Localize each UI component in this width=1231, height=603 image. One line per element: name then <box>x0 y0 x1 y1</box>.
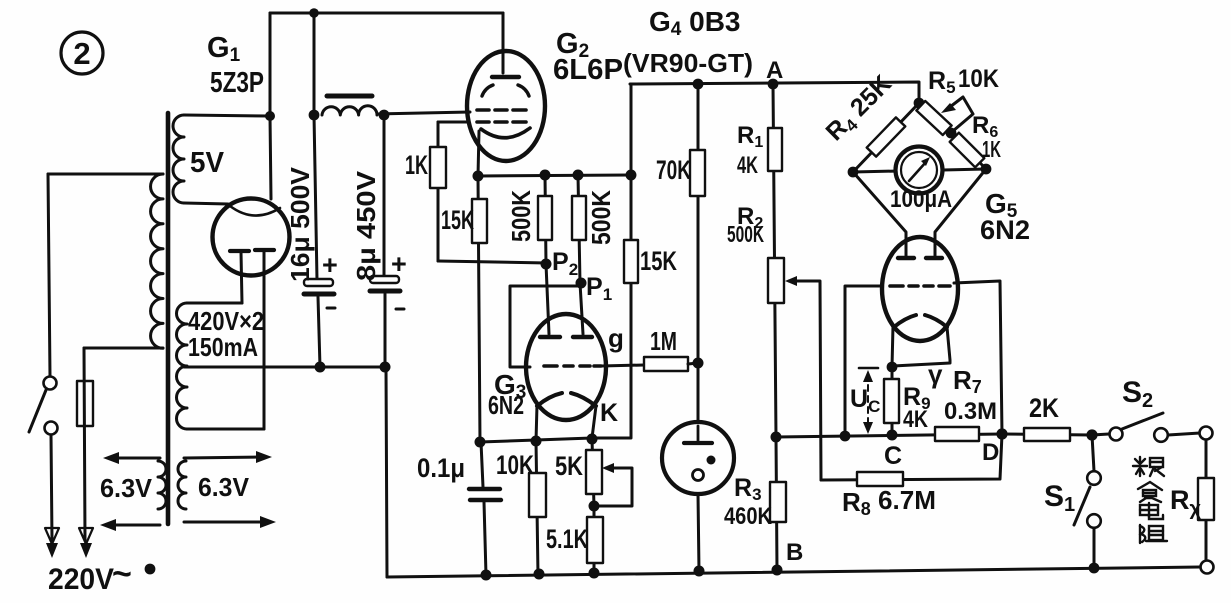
wire 6.3V right bottom lead <box>184 521 264 524</box>
svg-text:6.3V: 6.3V <box>198 472 250 502</box>
wire bridge right lower arm <box>935 169 986 258</box>
svg-text:10K: 10K <box>958 65 999 93</box>
node P2 <box>541 259 552 270</box>
wire bridge horizontal <box>853 169 986 172</box>
node junction R5 R6 <box>946 128 957 139</box>
transformer HT winding 420Vx2 <box>177 303 188 429</box>
svg-text:B: B <box>786 539 803 566</box>
node junction 500K second <box>573 170 584 181</box>
svg-text:4K: 4K <box>737 152 758 179</box>
wire G1 left plate lead to HT top <box>241 252 242 303</box>
char shi (food) <box>1138 482 1162 502</box>
char dian (electric) <box>1140 503 1163 519</box>
svg-text:460K: 460K <box>724 503 773 530</box>
node junction 8u top <box>379 110 390 121</box>
svg-text:16μ 500V: 16μ 500V <box>285 166 315 282</box>
svg-text:2: 2 <box>73 36 90 71</box>
resistor 1M grid <box>644 357 698 371</box>
resistor R3 460K <box>770 437 786 570</box>
svg-text:5V: 5V <box>190 147 225 179</box>
wire G2 cathode bus <box>478 175 631 176</box>
svg-text:+: + <box>391 249 407 279</box>
potentiometer R2 500K <box>768 258 821 480</box>
svg-text:2K: 2K <box>1029 393 1059 423</box>
node C <box>887 430 898 441</box>
wire P1 feedback hook to grid <box>510 286 581 367</box>
node P1 <box>576 278 587 289</box>
wire riser to rectifier tube <box>270 116 271 199</box>
svg-text:220V: 220V <box>48 563 114 596</box>
char zu (resistance) <box>1140 525 1167 543</box>
svg-text:0.1μ: 0.1μ <box>417 453 465 483</box>
node junction 1M right <box>693 358 704 369</box>
node K junction <box>587 434 598 445</box>
bridge node left <box>848 167 859 178</box>
arrow mains lead 1 <box>45 528 59 558</box>
node junction 16u top <box>309 110 320 121</box>
node junction 15K1 bottom <box>475 437 486 448</box>
arrow mains lead 2 <box>79 528 93 558</box>
svg-text:A: A <box>766 57 783 84</box>
svg-text:10K: 10K <box>496 450 534 480</box>
svg-text:g: g <box>608 323 624 353</box>
arrow 6.3V right top <box>256 451 272 463</box>
node junction bus right <box>626 170 637 181</box>
wire top rail B+ <box>270 12 503 15</box>
meter 100uA <box>896 147 943 194</box>
wire HT center tap <box>184 366 386 369</box>
node junction 16u bottom <box>315 362 326 373</box>
node junction top rail <box>309 8 319 18</box>
resistor R9 4K <box>884 367 899 435</box>
transformer 6.3V right winding <box>178 461 186 509</box>
wire filter input riser <box>313 13 316 115</box>
wire 6.3V right top lead <box>184 457 260 458</box>
svg-text:6L6P: 6L6P <box>553 54 623 86</box>
capacitor C 16u 500V <box>304 115 334 367</box>
arrow 6.3V left bottom <box>100 519 116 531</box>
resistor 15K second <box>592 84 638 438</box>
svg-text:C: C <box>884 442 902 470</box>
node junction grid riser <box>840 431 851 442</box>
node junction R2 bottom C-line <box>771 432 782 443</box>
svg-text:8μ 450V: 8μ 450V <box>351 170 381 281</box>
transformer 5V filament winding <box>173 115 184 203</box>
resistor 1K grid <box>430 122 446 261</box>
fuse <box>77 348 93 540</box>
char liang (grain) <box>1133 457 1164 476</box>
arrow 6.3V left top <box>103 452 119 464</box>
switch S1 <box>1074 435 1101 568</box>
node A <box>768 79 779 90</box>
wire 6.3V left top lead <box>116 457 160 460</box>
node junction S1 S2 <box>1086 429 1097 440</box>
svg-text:100μA: 100μA <box>890 186 952 213</box>
wire primary top lead <box>48 173 163 176</box>
svg-text:D: D <box>982 439 999 466</box>
Uc measurement marks <box>859 368 878 434</box>
terminal Rx top <box>1200 427 1213 440</box>
node junction 70K top <box>693 79 704 90</box>
wire G2 cathode lead <box>478 131 479 176</box>
svg-text:150mA: 150mA <box>188 332 258 362</box>
svg-text:1K: 1K <box>405 150 428 180</box>
regulator tube G4 0B3 <box>662 422 734 571</box>
svg-text:(VR90-GT): (VR90-GT) <box>623 48 753 78</box>
wire G1 right plate lead to HT bottom <box>263 251 266 429</box>
tube G3 6N2 <box>526 314 606 420</box>
svg-text:6N2: 6N2 <box>980 215 1030 245</box>
svg-text:5.1K: 5.1K <box>546 524 588 554</box>
tube G2 6L6P <box>467 51 545 161</box>
transformer 6.3V left winding <box>158 461 166 509</box>
bridge node top <box>914 98 925 109</box>
wire cathode bottom bus <box>480 438 592 442</box>
wire G2 plate lead from rail <box>502 13 505 73</box>
wire G3 right cathode lead K <box>592 406 596 438</box>
wire 5V winding top edge <box>184 115 270 116</box>
resistor R7 0.3M <box>935 427 979 441</box>
figure number 2 <box>61 32 103 74</box>
potentiometer R5 10K <box>916 97 973 135</box>
node junction S1 bottom rail <box>1089 563 1100 574</box>
svg-text:G4 0B3: G4 0B3 <box>649 6 741 40</box>
node junction 500K first <box>540 170 551 181</box>
wire C-line <box>776 434 1002 437</box>
node junction 10K top <box>531 436 542 447</box>
capacitor 0.1u <box>469 442 501 575</box>
svg-text:15K: 15K <box>441 205 474 235</box>
potentiometer 5K <box>586 439 632 506</box>
svg-text:5Z3P: 5Z3P <box>210 67 264 99</box>
node junction 10K bottom rail <box>534 569 545 580</box>
resistor 70K <box>690 84 705 422</box>
svg-text:6N2: 6N2 <box>488 390 524 420</box>
bridge node right <box>981 164 992 175</box>
svg-text:6.7M: 6.7M <box>878 485 936 515</box>
resistor R1 4K <box>768 84 782 437</box>
label grain resistance Chinese characters <box>1133 457 1167 543</box>
wire ground drop to bottom rail <box>386 367 387 577</box>
tube G5 6N2 <box>882 237 958 341</box>
svg-text:15K: 15K <box>640 246 677 276</box>
node junction 5K bottom <box>589 501 600 512</box>
resistor 10K <box>529 441 546 575</box>
svg-text:1M: 1M <box>650 326 677 356</box>
resistor 500K first <box>538 175 552 334</box>
node junction 0.1u bottom rail <box>481 570 492 581</box>
wire bridge left lower arm <box>853 172 906 258</box>
resistor 5.1K <box>587 506 603 575</box>
wire rectifier output riser <box>269 13 272 116</box>
wire 5V winding bottom edge <box>184 203 228 204</box>
svg-text:500K: 500K <box>586 190 616 245</box>
resistor 2K <box>1002 428 1092 441</box>
transformer primary winding <box>151 174 163 348</box>
svg-text:~: ~ <box>112 555 132 593</box>
node junction 5V/riser <box>265 111 275 121</box>
resistor R4 25K <box>853 103 919 172</box>
choke filter inductor <box>322 96 377 115</box>
wire G2 control grid exit <box>438 121 469 124</box>
svg-text:70K: 70K <box>656 155 691 185</box>
wire primary bottom lead <box>84 347 163 350</box>
node B <box>772 565 783 576</box>
wire choke output to G2 screen <box>377 112 470 114</box>
svg-text:0.3M: 0.3M <box>944 398 997 425</box>
svg-text:γ: γ <box>928 359 943 389</box>
svg-text:500K: 500K <box>506 190 536 242</box>
node junction 8u bottom <box>380 362 391 373</box>
svg-text:500K: 500K <box>727 221 764 247</box>
resistor 500K second <box>572 175 586 334</box>
node junction cathode R9 <box>887 362 898 373</box>
arrow 6.3V right bottom <box>260 516 276 528</box>
wire G5 right grid to D <box>954 281 1002 434</box>
svg-text:+: + <box>322 250 338 280</box>
switch mains <box>29 174 58 540</box>
wire 1K to P2 feedback <box>438 261 547 263</box>
wire G3 left cathode lead <box>536 405 537 441</box>
resistor R8 6.7M <box>821 434 1002 486</box>
switch S2 <box>1092 413 1200 442</box>
svg-text:K: K <box>600 399 618 427</box>
capacitor C 8u 450V <box>370 115 400 367</box>
resistor 15K first <box>472 176 487 442</box>
wire riser to G5 left grid <box>845 286 882 436</box>
wire HT winding top edge <box>187 302 242 305</box>
node D <box>996 428 1007 439</box>
wire bottom ground rail <box>387 567 1200 577</box>
transformer core <box>166 113 171 524</box>
wire upper rail to bridge <box>630 82 919 103</box>
capacitor polarity minus marks <box>327 307 335 310</box>
node junction 5.1K bottom rail <box>589 568 600 579</box>
svg-text:5K: 5K <box>555 451 583 481</box>
rectifier tube G1 5Z3P <box>213 199 290 276</box>
wire G5 right cathode loop <box>893 327 950 366</box>
svg-text:6.3V: 6.3V <box>100 473 153 503</box>
svg-text:4K: 4K <box>903 406 929 433</box>
wire HT winding bottom edge <box>187 428 264 431</box>
wire G5 left cathode lead <box>892 326 893 367</box>
resistor R6 1K <box>950 133 986 169</box>
wire 6.3V left bottom lead <box>113 524 160 527</box>
wire G3 grid to 1M <box>601 365 644 366</box>
svg-text:1K: 1K <box>982 136 1001 162</box>
mains polarity dot <box>145 564 156 575</box>
node junction cathode bus left <box>473 171 484 182</box>
node junction 0B3 bottom rail <box>694 566 705 577</box>
resistor Rx grain sample <box>1198 440 1214 560</box>
terminal Rx bottom <box>1201 561 1214 574</box>
